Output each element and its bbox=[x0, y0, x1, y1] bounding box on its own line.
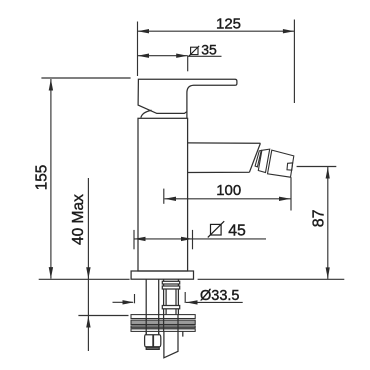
arrow 125 right bbox=[283, 29, 295, 33]
dim 45 tick left bbox=[133, 230, 135, 249]
faucet handle lever bbox=[138, 79, 237, 113]
arrowheads bbox=[49, 29, 330, 328]
arrow 33.5 left-pointing bbox=[186, 300, 198, 304]
counter lower line bbox=[78, 315, 128, 317]
washer 3 (gray, thin) bbox=[131, 326, 195, 328]
stud tube bbox=[164, 289, 179, 306]
handle neck stub bbox=[186, 112, 188, 119]
dim 33.5 tick right bbox=[184, 292, 186, 303]
stud gap stubs bbox=[164, 284, 179, 286]
dim 100 line bbox=[165, 198, 291, 200]
handle skirt arc bbox=[141, 110, 152, 117]
threaded rod below (broken end flap) bbox=[164, 331, 178, 357]
dim 87 line bbox=[327, 167, 329, 279]
aerator tab bbox=[287, 163, 293, 170]
arrow 87 up bbox=[326, 167, 330, 179]
left supply pipe bbox=[146, 279, 159, 335]
arrow 155 top bbox=[49, 79, 53, 91]
arrow 87 down bbox=[326, 267, 330, 279]
pipe lines over washers bbox=[146, 315, 178, 332]
svg-text:155: 155 bbox=[33, 165, 50, 191]
arrow 40max up bbox=[86, 316, 90, 328]
stud collar band 2 bbox=[162, 286, 179, 289]
dim 45 tick right bbox=[192, 230, 194, 249]
dim 40max line bbox=[87, 178, 89, 351]
svg-text:45: 45 bbox=[228, 223, 246, 240]
dim 87 extension top bbox=[297, 166, 337, 168]
svg-text:Ø33.5: Ø33.5 bbox=[200, 288, 240, 304]
dimension graphics bbox=[39, 20, 345, 352]
washer 1 (top, white) bbox=[131, 315, 195, 319]
aerator ring 2 bbox=[258, 149, 269, 172]
nut stubs bbox=[146, 331, 159, 334]
stud collar band 1 bbox=[162, 281, 179, 284]
washer 4 (bottom, white) bbox=[131, 329, 195, 332]
counter surface left bbox=[39, 278, 130, 280]
compression nut bbox=[145, 335, 161, 347]
stud lower tube bbox=[164, 309, 179, 315]
arrow 125 left bbox=[138, 29, 150, 33]
nut skirt bbox=[146, 347, 159, 350]
arrow 45 left bbox=[134, 237, 146, 241]
svg-text:87: 87 bbox=[311, 209, 328, 227]
svg-text:40 Max: 40 Max bbox=[70, 194, 87, 245]
arrow 45 right bbox=[181, 237, 193, 241]
dim 100 tick left bbox=[163, 189, 165, 204]
dim 155 line bbox=[50, 79, 52, 279]
arrow 100 right bbox=[279, 197, 291, 201]
dim 33.5 label line bbox=[186, 301, 243, 303]
aerator ring 1 bbox=[255, 150, 261, 167]
aerator cap bbox=[268, 150, 294, 177]
arrow 35 right bbox=[176, 54, 188, 58]
svg-text:35: 35 bbox=[201, 42, 217, 58]
dimension texts bbox=[33, 16, 327, 305]
stud collar band 3 bbox=[162, 306, 179, 309]
base plate bbox=[131, 271, 193, 279]
washer stack bbox=[131, 315, 195, 332]
dim 35 extension right bbox=[187, 56, 189, 72]
square symbol 35 bbox=[189, 46, 199, 56]
faucet body bbox=[138, 118, 188, 271]
arrow 35 left bbox=[138, 54, 150, 58]
arrow 155 bottom bbox=[49, 267, 53, 279]
dim 155 top extension bbox=[41, 77, 130, 79]
spout bbox=[188, 143, 261, 173]
arrow 33.5 right-pointing bbox=[123, 300, 135, 304]
square symbol 45 bbox=[208, 221, 224, 237]
arrow 40max down bbox=[86, 267, 90, 279]
svg-text:100: 100 bbox=[216, 182, 241, 199]
dim 125 extension left bbox=[137, 22, 139, 77]
dim 125 extension right bbox=[293, 20, 295, 104]
dim 35 label underline bbox=[188, 55, 222, 57]
dim 125 line bbox=[138, 30, 295, 32]
dim 35 line bbox=[138, 55, 188, 57]
arrow 100 left bbox=[165, 197, 177, 201]
nut facet line bbox=[152, 335, 154, 347]
dim 33.5 tick left bbox=[134, 294, 136, 303]
svg-text:125: 125 bbox=[216, 16, 241, 33]
dim 33.5 left arrow line bbox=[113, 301, 134, 303]
threaded stud top stubs bbox=[164, 279, 179, 281]
dim 45 line bbox=[134, 238, 266, 240]
counter surface right bbox=[198, 278, 345, 280]
dim 100 extension right bbox=[290, 177, 292, 210]
washer 2 (gray) bbox=[131, 320, 195, 324]
small line right of flap bbox=[182, 331, 184, 336]
